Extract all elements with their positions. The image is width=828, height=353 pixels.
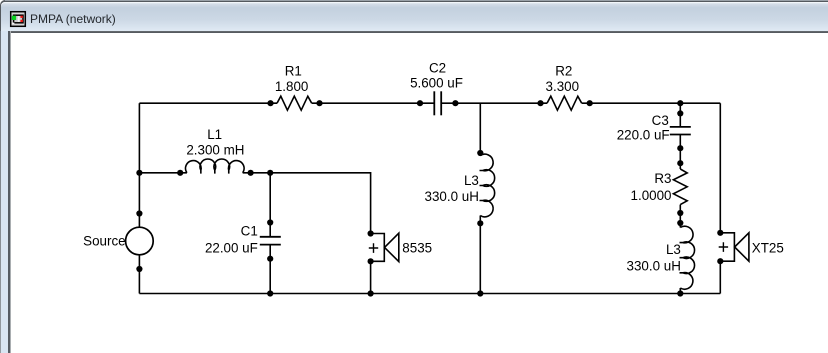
- junction dot right L3 at bottom wire: [677, 290, 683, 296]
- junction dot right L3 top: [677, 220, 683, 226]
- svg-text:C1: C1: [241, 224, 258, 239]
- speaker 8535: [369, 233, 399, 261]
- junction dot top wire 1: [267, 100, 273, 106]
- speaker XT25: [719, 233, 749, 261]
- wire L3 to bottom: [679, 288, 681, 294]
- wire C1 lower: [269, 245, 271, 294]
- inductor L3 (right): [680, 226, 695, 289]
- junction dot mid L3 bottom: [477, 220, 483, 226]
- wire 8535 to bottom: [370, 261, 372, 293]
- wire mid L3 upper: [479, 103, 481, 155]
- window left border: [0, 31, 11, 353]
- wire mid L3 lower: [479, 216, 481, 294]
- svg-text:C3: C3: [652, 113, 669, 128]
- junction dot C3 bottom: [677, 145, 683, 151]
- wire L1 row left: [139, 172, 187, 174]
- wire C1 upper: [269, 173, 271, 237]
- junction dot L1 left terminal: [177, 170, 183, 176]
- junction dot top wire 5: [537, 100, 543, 106]
- resistor R2: [547, 96, 582, 110]
- svg-text:L3: L3: [666, 242, 681, 257]
- junction dot top wire 2: [316, 100, 322, 106]
- svg-text:330.0 uH: 330.0 uH: [627, 259, 681, 274]
- wire right drop to XT25: [719, 103, 721, 233]
- svg-text:3.300: 3.300: [546, 79, 580, 94]
- junction dot L1 row left: [136, 170, 142, 176]
- svg-text:330.0 uH: 330.0 uH: [425, 189, 479, 204]
- junction dot XT25 top: [717, 230, 723, 236]
- junction dot XT25 bottom: [717, 258, 723, 264]
- wire top segment R2 to right corner: [582, 102, 721, 104]
- capacitor C2: [434, 91, 441, 115]
- svg-text:22.00 uF: 22.00 uF: [205, 241, 258, 256]
- svg-text:R1: R1: [285, 64, 302, 79]
- wire XT25 to bottom: [719, 261, 721, 293]
- svg-text:R2: R2: [555, 64, 572, 79]
- svg-text:L1: L1: [207, 127, 222, 142]
- svg-text:8535: 8535: [402, 240, 432, 255]
- wire top segment R1 to C2: [312, 102, 435, 104]
- junction dot source bottom: [136, 266, 142, 272]
- window icon: [9, 10, 29, 30]
- svg-text:1.0000: 1.0000: [631, 188, 672, 203]
- inductor L3 (mid): [480, 154, 495, 217]
- wire left vertical upper: [138, 103, 140, 227]
- svg-text:L3: L3: [464, 173, 479, 188]
- junction dot mid L3 top: [477, 150, 483, 156]
- junction dot C1 at bottom wire: [267, 290, 273, 296]
- junction dot 8535 bottom: [368, 258, 374, 264]
- junction dot top wire 3: [417, 100, 423, 106]
- junction dot C3 top: [677, 110, 683, 116]
- wire R3 to L3: [679, 205, 681, 228]
- source: [126, 227, 154, 255]
- junction dot L1 right terminal: [248, 170, 254, 176]
- junction dot 8535 at bottom wire: [368, 290, 374, 296]
- window title: [30, 12, 116, 26]
- junction dot R3 bottom: [677, 210, 683, 216]
- svg-text:1.800: 1.800: [275, 79, 309, 94]
- wire bottom: [139, 293, 720, 295]
- capacitor C1: [260, 237, 281, 245]
- junction dot C1 top: [267, 219, 273, 225]
- junction dot C1 bottom: [267, 256, 273, 262]
- junction dot top wire 4: [452, 100, 458, 106]
- wire C3 to R3: [679, 135, 681, 170]
- capacitor C3: [670, 127, 691, 135]
- junction dot C1 branch top: [267, 170, 273, 176]
- junction dot R3 top: [677, 160, 683, 166]
- junction dot top wire 7: [677, 100, 683, 106]
- svg-text:C2: C2: [429, 60, 446, 75]
- svg-text:Source: Source: [83, 234, 125, 249]
- junction dot mid L3 at bottom wire: [477, 290, 483, 296]
- window title bar: [0, 0, 828, 31]
- resistor R3: [673, 169, 687, 205]
- junction dot source top: [136, 210, 142, 216]
- resistor R1: [277, 96, 312, 110]
- wire C3 upper: [679, 103, 681, 127]
- wire left vertical lower: [138, 255, 140, 294]
- svg-text:XT25: XT25: [752, 240, 784, 255]
- svg-text:5.600 uF: 5.600 uF: [410, 75, 463, 90]
- junction dot 8535 top: [368, 230, 374, 236]
- svg-text:R3: R3: [654, 171, 671, 186]
- junction dot top wire 6: [587, 100, 593, 106]
- wire top segment left: [139, 102, 277, 104]
- svg-text:2.300 mH: 2.300 mH: [186, 143, 244, 158]
- wire top segment C2 to R2: [441, 102, 547, 104]
- wire L1 row right with drop to 8535: [243, 173, 371, 234]
- svg-text:220.0 uF: 220.0 uF: [617, 128, 670, 143]
- inductor L1: [185, 159, 244, 174]
